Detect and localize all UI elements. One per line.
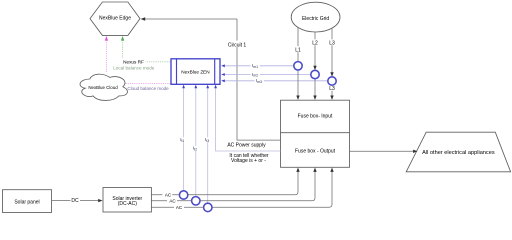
- wire magenta dashed cloud to hexagon: [105, 36, 108, 73]
- wire AC power supply (ZEN to fuse box): [214, 85, 280, 151]
- ellipse Electric Grid: [291, 2, 340, 32]
- CT sensor circle on AC1: [179, 191, 187, 199]
- wire AC line 2 inverter to fuse box: [151, 172, 315, 201]
- svg-text:Fuse box- Input: Fuse box- Input: [298, 113, 333, 119]
- wire fuse box to appliances: [350, 150, 418, 153]
- svg-text:NexBlue Edge: NexBlue Edge: [99, 16, 131, 22]
- cloud NexBlue Cloud: [80, 74, 127, 100]
- svg-text:Im2: Im2: [252, 72, 258, 78]
- wire AC line 1 inverter to fuse box: [151, 172, 298, 195]
- svg-text:Local balance mode: Local balance mode: [113, 66, 155, 71]
- wire grid line L1: [296, 27, 299, 100]
- node Circuit 1 label: [227, 41, 247, 49]
- CT sensor circle on AC2: [192, 197, 200, 205]
- box Solar inverter: [103, 188, 151, 213]
- node AC label 3: [174, 204, 184, 210]
- svg-text:DC: DC: [71, 198, 79, 204]
- svg-text:Nexus RF: Nexus RF: [123, 59, 144, 64]
- svg-text:Electric Grid: Electric Grid: [302, 16, 329, 22]
- node L3 label lower: [328, 85, 337, 92]
- box NexBlue ZEN: [171, 59, 220, 85]
- box Fuse box: [281, 100, 350, 167]
- node AC label 1: [162, 192, 172, 198]
- wire AC line 3 inverter to fuse box: [151, 172, 332, 208]
- hexagon NexBlue Edge: [90, 2, 140, 35]
- svg-text:AC Power supply: AC Power supply: [227, 142, 266, 148]
- CT sensor circle on L1: [294, 62, 302, 70]
- wire ZEN bottom sensor line 3: [204, 85, 211, 204]
- CT sensor circle on L2: [311, 70, 319, 78]
- wire DC arrow panel to inverter: [52, 199, 103, 202]
- wire ZEN bottom sensor line 1: [180, 85, 187, 191]
- svg-text:Fuse box - Output: Fuse box - Output: [295, 149, 336, 155]
- node AC label 2: [167, 198, 177, 204]
- node DC label: [71, 198, 81, 205]
- svg-text:L3: L3: [329, 41, 335, 47]
- wire magenta dashed cloud to ZEN: [126, 82, 172, 84]
- svg-text:AC: AC: [169, 199, 176, 204]
- svg-text:Im1: Im1: [252, 63, 258, 69]
- svg-text:Im3: Im3: [256, 78, 262, 84]
- svg-text:NexBlue ZEN: NexBlue ZEN: [181, 69, 209, 74]
- node L2 label: [311, 39, 320, 46]
- wire green dashed ZEN to hexagon (Nexus RF): [121, 36, 171, 62]
- wire Im1 from CT1 to ZEN: [221, 63, 298, 69]
- svg-text:Solar panel: Solar panel: [14, 199, 39, 205]
- svg-text:AC: AC: [165, 193, 172, 198]
- svg-text:AC: AC: [176, 205, 183, 210]
- svg-text:Circuit 1: Circuit 1: [228, 43, 247, 49]
- wire grid line L2: [313, 32, 316, 100]
- svg-text:Voltage is + or -: Voltage is + or -: [231, 158, 266, 164]
- CT sensor circle on AC3: [204, 203, 212, 211]
- wire grid line L3: [330, 28, 333, 100]
- node L3 label top: [328, 39, 337, 46]
- svg-text:(DC-AC): (DC-AC): [118, 201, 137, 207]
- svg-text:NexBlue Cloud: NexBlue Cloud: [88, 85, 118, 90]
- trapezoid All other electrical appliances: [406, 132, 510, 172]
- box Solar panel: [3, 190, 52, 213]
- node Nexus RF label: [122, 58, 146, 64]
- node L1 label: [294, 46, 303, 53]
- wire Circuit 1 vertical + horizontal into hexagon: [141, 17, 281, 140]
- svg-text:Cloud balance mode: Cloud balance mode: [127, 86, 169, 91]
- svg-text:L2: L2: [312, 41, 318, 47]
- wire Im2 from CT2 to ZEN: [221, 72, 315, 78]
- wire Im3 from CT3 to ZEN: [221, 78, 332, 84]
- svg-text:L3: L3: [329, 86, 335, 92]
- wire ZEN bottom sensor line 2: [192, 85, 199, 197]
- svg-text:All other electrical appliance: All other electrical appliances: [422, 150, 495, 156]
- svg-text:L1: L1: [295, 47, 301, 53]
- CT sensor circle on L3: [328, 77, 336, 85]
